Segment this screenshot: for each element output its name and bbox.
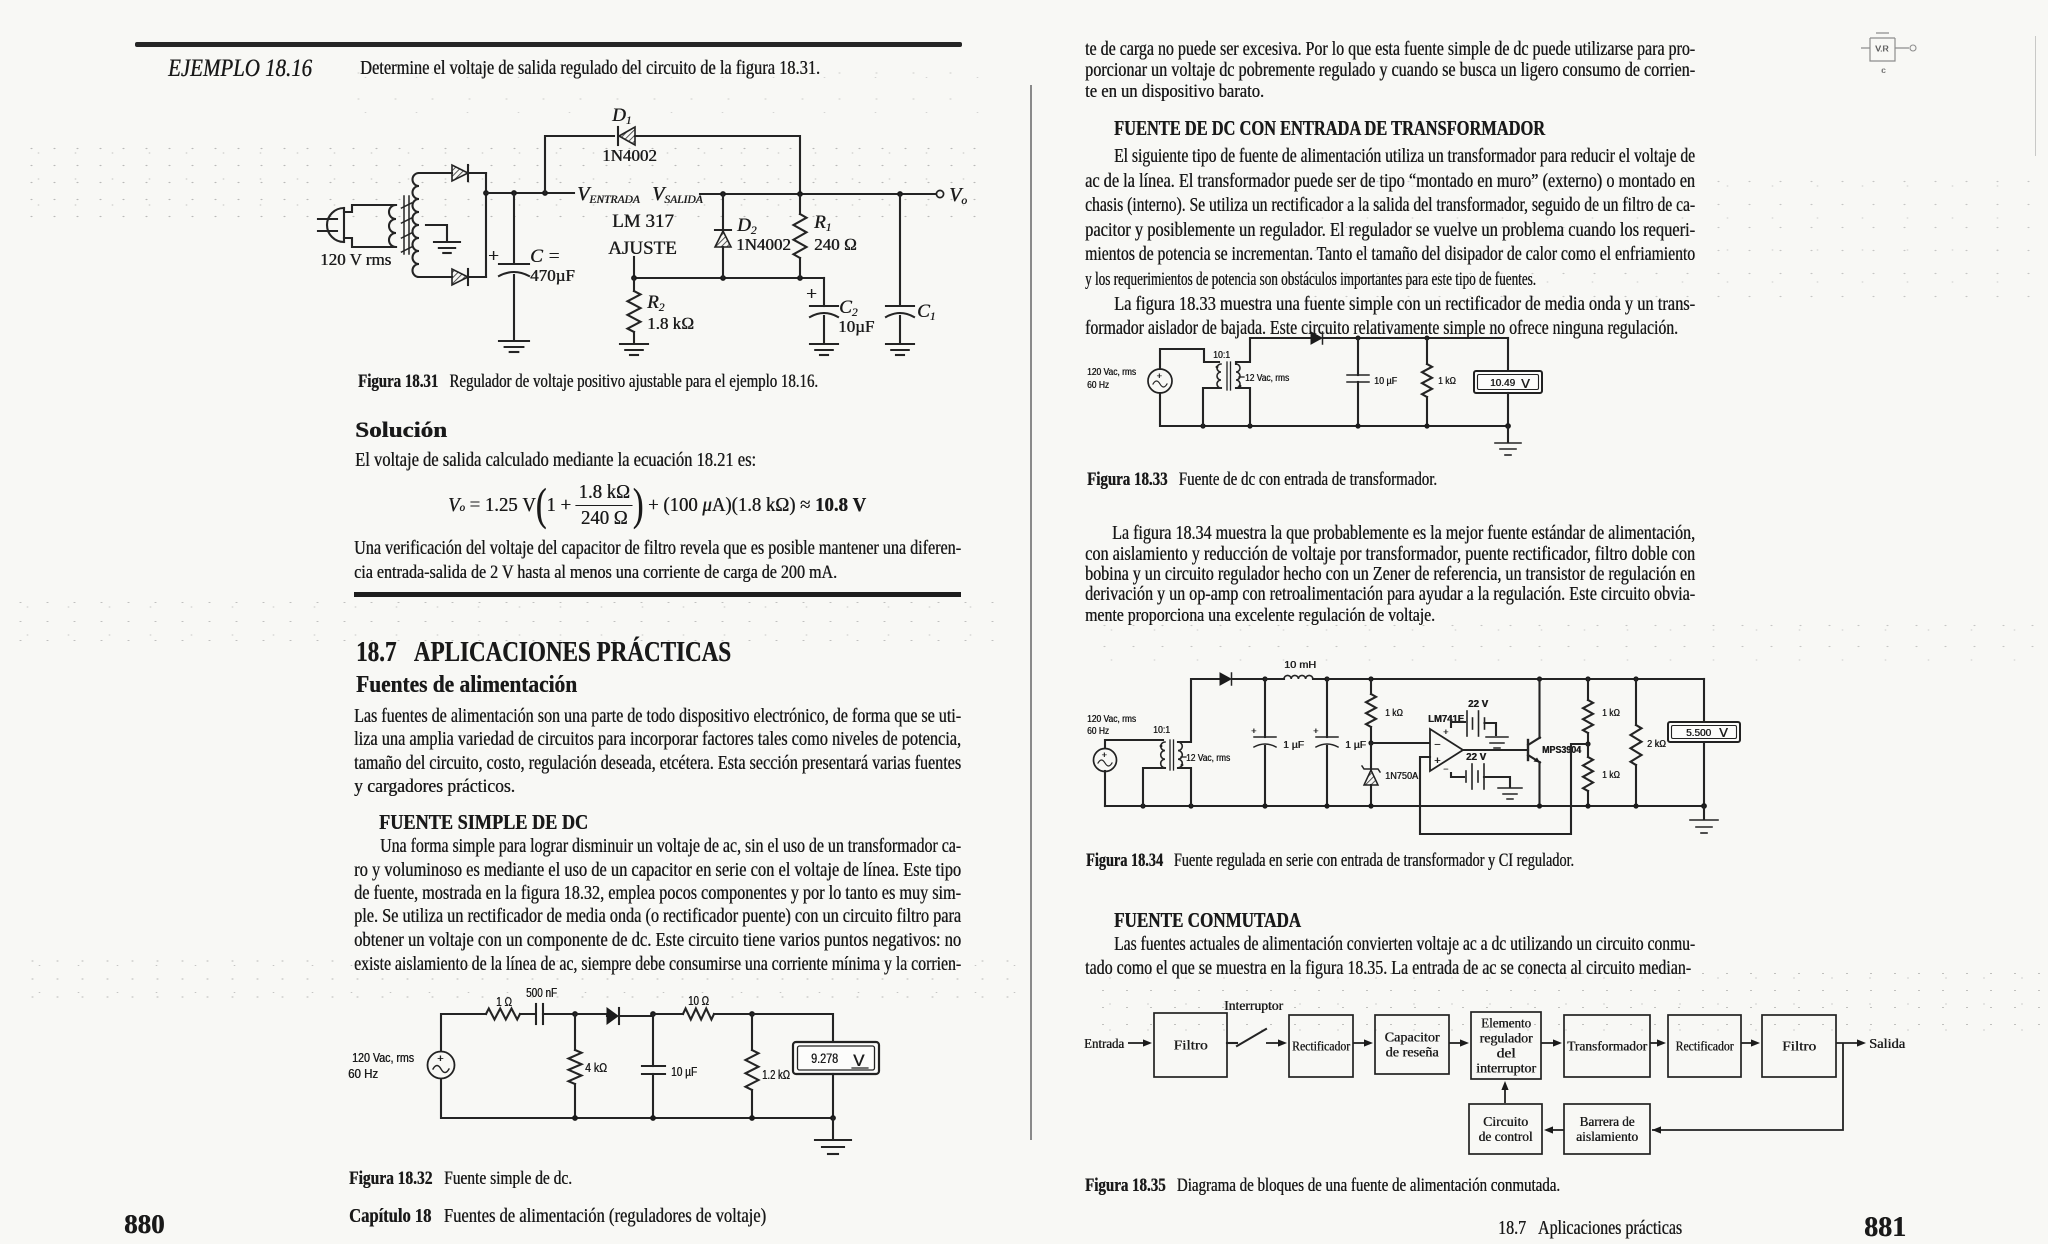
wire source to R 1ohm [441, 1014, 486, 1051]
junction [1505, 423, 1511, 429]
junction [650, 1011, 656, 1017]
junction [1200, 423, 1205, 428]
svg-text:Interruptor: Interruptor [1224, 998, 1284, 1013]
svg-text:V: V [1719, 725, 1728, 740]
svg-text:1N4002: 1N4002 [602, 146, 657, 165]
svg-text:1.8 kΩ: 1.8 kΩ [647, 314, 694, 333]
svg-text:10 mH: 10 mH [1284, 660, 1316, 671]
ground below C1 [886, 344, 914, 355]
junction [720, 191, 726, 197]
svg-text:R2: R2 [646, 292, 665, 314]
svg-text:C1: C1 [917, 301, 935, 323]
svg-text:1 µF: 1 µF [1345, 740, 1366, 751]
svg-text:+: + [806, 284, 817, 305]
arrow Barrera to Circuito de control [1553, 1129, 1564, 1131]
arrow switch to Rectificador [1266, 1042, 1278, 1044]
svg-text:Barrera de: Barrera de [1580, 1114, 1635, 1129]
svg-text:VSALIDA: VSALIDA [652, 183, 704, 206]
svg-text:Rectificador: Rectificador [1676, 1039, 1734, 1054]
wire bridge output [485, 173, 487, 277]
arrow Filtro to Salida [1836, 1042, 1857, 1044]
block: Circuito de control [1469, 1104, 1542, 1154]
wire secondary top to diode fig18.34 [1178, 679, 1220, 742]
arrow Circuito de control up to Elemento [1504, 1090, 1506, 1103]
transformer secondary fig18.33 (12 Vac) [1236, 364, 1240, 388]
wire bottom rail [441, 1079, 833, 1118]
svg-text:22 V: 22 V [1466, 752, 1486, 763]
feedback wire divider to op-amp + input [1420, 744, 1588, 834]
svg-text:240 Ω: 240 Ω [814, 235, 857, 254]
junction [1356, 336, 1361, 341]
svg-text:Salida: Salida [1869, 1036, 1905, 1051]
svg-text:120 Vac, rms: 120 Vac, rms [1087, 714, 1136, 725]
wire emitter to bottom rail [1538, 762, 1540, 806]
svg-text:de control: de control [1479, 1129, 1533, 1144]
svg-text:120 Vac, rms: 120 Vac, rms [352, 1051, 414, 1065]
junction [1247, 423, 1252, 428]
resistor 1 kohm fig18.33 [1426, 338, 1428, 364]
block: Transformador [1564, 1015, 1650, 1077]
svg-text:LM 317: LM 317 [612, 211, 674, 232]
transformer 10:1 primary fig18.33 [1217, 364, 1221, 388]
junction [1701, 803, 1707, 809]
svg-text:1N750A: 1N750A [1385, 771, 1418, 782]
svg-text:del: del [1497, 1046, 1516, 1061]
block: Rectificador (2nd) [1668, 1015, 1741, 1077]
svg-text:+: + [437, 1053, 443, 1065]
ground below R2 [620, 344, 648, 355]
junction [797, 191, 803, 197]
resistor 1 ohm [486, 1009, 520, 1020]
wire source top fig18.34 [1105, 740, 1163, 748]
ac source VS 120 Vac [428, 1052, 455, 1079]
svg-text:1.2 kΩ: 1.2 kΩ [762, 1068, 790, 1082]
arrow to Transformador [1541, 1042, 1553, 1044]
voltmeter 9.278 V [793, 1042, 879, 1074]
transformer core fig18.33 [1227, 362, 1231, 390]
svg-text:−: − [1434, 739, 1440, 751]
svg-text:Vo: Vo [949, 184, 967, 207]
ground below battery V- [1498, 788, 1522, 799]
wire bottom rail fig18.34 [1104, 771, 1106, 806]
arrow to Elemento regulador [1449, 1042, 1460, 1044]
svg-text:120 V rms: 120 V rms [320, 250, 391, 269]
block: Filtro (input) [1154, 1013, 1227, 1077]
arrow to Capacitor de resena [1353, 1042, 1364, 1044]
resistor 4 kohm [574, 1014, 576, 1050]
ground below battery V+ [1486, 737, 1508, 748]
svg-text:de reseña: de reseña [1386, 1045, 1439, 1060]
svg-text:1 µF: 1 µF [1283, 740, 1304, 751]
arrow Entrada to Filtro [1128, 1042, 1143, 1044]
junction [572, 1011, 578, 1017]
wire to voltmeter branch [752, 1014, 833, 1042]
wire input rail to LM317 [486, 192, 574, 194]
inductor 10 mH [1265, 678, 1284, 680]
svg-text:AJUSTE: AJUSTE [608, 238, 677, 259]
svg-text:+: + [488, 246, 499, 267]
wire plug to transformer primary [344, 205, 396, 212]
battery V+ 22V [1451, 722, 1465, 727]
svg-text:Filtro: Filtro [1174, 1038, 1208, 1053]
svg-text:regulador: regulador [1480, 1031, 1534, 1046]
switch symbol [1227, 1029, 1266, 1046]
junction [1324, 676, 1329, 681]
feedback wire from output down to Barrera [1652, 1043, 1843, 1130]
svg-text:Rectificador: Rectificador [1292, 1039, 1350, 1054]
resistor R1 240 ohm [799, 194, 801, 214]
diode fig18.34 [1220, 673, 1232, 685]
svg-text:+: + [1313, 726, 1318, 736]
svg-text:C =: C = [530, 246, 560, 267]
junction [1188, 803, 1193, 808]
ground fig18.33 [1507, 426, 1509, 442]
junction [749, 1115, 755, 1121]
capacitor 1uF (first) [1264, 679, 1266, 737]
wire secondary bottom fig18.34 [1178, 768, 1191, 806]
resistor R2 1.8 kohm [633, 278, 635, 291]
svg-text:12 Vac, rms: 12 Vac, rms [1186, 753, 1230, 764]
svg-text:1 kΩ: 1 kΩ [1438, 376, 1456, 387]
wire secondary top to diode [1236, 338, 1311, 364]
wire adjust rail [633, 257, 635, 278]
capacitor C2 10uF [823, 278, 825, 306]
svg-text:10 µF: 10 µF [1374, 376, 1397, 387]
junction [650, 1115, 656, 1121]
svg-text:D1: D1 [611, 105, 631, 127]
svg-text:22 V: 22 V [1468, 699, 1488, 710]
svg-text:10 µF: 10 µF [671, 1065, 697, 1079]
junction [1368, 676, 1373, 681]
junction [1585, 676, 1590, 681]
svg-text:2 kΩ: 2 kΩ [1647, 739, 1666, 750]
center tap wire [426, 225, 447, 240]
op-amp U1 LM741E [1430, 729, 1463, 771]
junction [1355, 423, 1360, 428]
diode fig18.33 [1311, 332, 1323, 344]
svg-text:500 nF: 500 nF [526, 986, 557, 1000]
resistor 1.2 kohm [751, 1014, 753, 1050]
svg-text:1N4002: 1N4002 [736, 235, 791, 254]
ground below C2 [810, 344, 838, 355]
svg-text:Transformador: Transformador [1567, 1039, 1647, 1054]
svg-text:Filtro: Filtro [1782, 1039, 1816, 1054]
svg-text:1 kΩ: 1 kΩ [1602, 770, 1620, 781]
output terminal Vo [936, 190, 943, 197]
junction [897, 191, 903, 197]
svg-text:V: V [1521, 376, 1530, 391]
svg-text:1 kΩ: 1 kΩ [1385, 708, 1403, 719]
junction [1140, 803, 1145, 808]
wire node to op-amp inverting input [1371, 742, 1429, 744]
capacitor C1 [899, 194, 901, 306]
junction [1537, 803, 1542, 808]
junction [1633, 676, 1638, 681]
junction [1585, 741, 1590, 746]
resistor 1 kohm (zener feed) [1370, 679, 1372, 694]
resistor divider 1 kohm (bottom) [1587, 744, 1589, 757]
diode D (half-wave) [607, 1008, 619, 1024]
junction [631, 275, 637, 281]
ground fig18.34 [1703, 806, 1705, 819]
block: Barrera de aislamiento [1564, 1104, 1650, 1154]
svg-text:10 Ω: 10 Ω [688, 994, 709, 1008]
wire to voltmeter fig18.33 [1507, 338, 1509, 371]
wire node to diode [575, 1014, 607, 1016]
zener diode 1N750A [1370, 743, 1372, 769]
junction [1262, 676, 1267, 681]
svg-text:60 Hz: 60 Hz [1087, 380, 1109, 391]
capacitor 500 nF [536, 1004, 543, 1024]
wire voltmeter to bottom rail [832, 1074, 834, 1118]
transformer T1 secondary winding [413, 173, 420, 277]
arrow to Rectificador 2 [1650, 1042, 1657, 1044]
svg-text:10µF: 10µF [838, 317, 874, 336]
svg-text:10.49: 10.49 [1490, 378, 1515, 389]
svg-text:Elemento: Elemento [1481, 1016, 1531, 1031]
transformer T1 core [402, 196, 412, 254]
junction [572, 1115, 578, 1121]
svg-text:MPS3904: MPS3904 [1542, 745, 1581, 756]
wire primary bottom fig18.34 [1143, 768, 1165, 806]
capacitor 10uF fig18.33 [1357, 338, 1359, 375]
resistor divider 1 kohm (top) [1587, 679, 1589, 700]
wire output rail [700, 193, 936, 195]
svg-text:D2: D2 [736, 215, 757, 237]
voltmeter 10.49 V fig18.33 [1474, 371, 1542, 393]
junction [1324, 803, 1329, 808]
wire top rail fig18.34 [1327, 678, 1704, 680]
capacitor C 470uF [513, 193, 515, 264]
diode D1 1N4002 [545, 136, 614, 193]
transformer core fig18.34 [1170, 740, 1174, 770]
svg-text:60 Hz: 60 Hz [1087, 726, 1109, 737]
svg-text:4 kΩ: 4 kΩ [585, 1061, 607, 1075]
rectifier diode bottom (bridge) [419, 276, 452, 278]
capacitor 10 uF [652, 1014, 654, 1066]
junction [830, 1115, 836, 1121]
junction [1425, 336, 1430, 341]
transistor Q1 MPS3904 [1528, 738, 1540, 763]
ac source 120 Vac fig18.33 [1148, 369, 1172, 393]
block: Capacitor de resena [1375, 1015, 1449, 1074]
wire primary bottom [1203, 388, 1221, 426]
junction [1424, 423, 1429, 428]
svg-text:12 Vac, rms: 12 Vac, rms [1245, 373, 1289, 384]
wire secondary bottom [1236, 388, 1250, 426]
svg-text:1 Ω: 1 Ω [496, 995, 512, 1009]
wire collector to top rail [1538, 679, 1540, 738]
junction [1537, 676, 1542, 681]
svg-text:+: + [1434, 755, 1440, 767]
svg-text:470µF: 470µF [530, 266, 575, 285]
svg-text:10:1: 10:1 [1153, 725, 1170, 736]
svg-text:5.500: 5.500 [1686, 728, 1711, 739]
junction [483, 190, 489, 196]
svg-text:−: − [1443, 764, 1448, 774]
svg-text:+: + [1443, 727, 1448, 737]
ac plug P1 (120 V rms) [318, 208, 344, 242]
junction [511, 190, 517, 196]
resistor 10 ohm [653, 1013, 683, 1015]
rectifier diode top (bridge) [419, 172, 452, 174]
junction [720, 275, 726, 281]
svg-text:interruptor: interruptor [1476, 1061, 1537, 1076]
junction [1633, 803, 1638, 808]
svg-text:60 Hz: 60 Hz [348, 1067, 378, 1081]
svg-text:Entrada: Entrada [1084, 1036, 1124, 1051]
block: Elemento regulador del interruptor [1471, 1012, 1541, 1079]
svg-text:VENTRADA: VENTRADA [577, 183, 641, 206]
arrow to Filtro 2 [1741, 1042, 1751, 1044]
junction [1368, 803, 1373, 808]
svg-text:9.278: 9.278 [811, 1051, 838, 1066]
junction [542, 190, 548, 196]
svg-text:1 kΩ: 1 kΩ [1602, 708, 1620, 719]
svg-text:V: V [853, 1051, 865, 1070]
transformer T1 primary winding [389, 205, 396, 247]
arrow into Barrera de aislamiento [1660, 1129, 1661, 1131]
ground fig18.32 [832, 1118, 834, 1139]
block: Rectificador (1st) [1289, 1015, 1353, 1077]
wire top rail fig18.33 [1324, 337, 1508, 339]
ac source 120 Vac fig18.34 [1094, 749, 1117, 772]
resistor 2 kohm [1635, 679, 1637, 725]
voltmeter 5.500 V fig18.34 [1703, 679, 1705, 721]
svg-text:LM741E: LM741E [1428, 714, 1464, 725]
battery V- 22V [1451, 773, 1464, 777]
block: Filtro (output) [1762, 1015, 1836, 1077]
wire source to primary [1160, 349, 1219, 369]
svg-text:R1: R1 [813, 212, 831, 234]
svg-text:10:1: 10:1 [1213, 350, 1230, 361]
ground below C [499, 341, 529, 352]
junction [1368, 740, 1373, 745]
junction [797, 275, 803, 281]
svg-text:C2: C2 [839, 297, 858, 319]
svg-text:Capacitor: Capacitor [1385, 1030, 1441, 1045]
transformer 10:1 primary fig18.34 [1161, 742, 1165, 768]
capacitor 1uF (second) [1326, 679, 1328, 737]
svg-text:Circuito: Circuito [1483, 1114, 1528, 1129]
svg-text:+: + [1251, 726, 1256, 736]
svg-text:120 Vac, rms: 120 Vac, rms [1087, 367, 1136, 378]
junction [749, 1011, 755, 1017]
svg-text:+: + [1157, 371, 1162, 381]
wire bottom rail fig18.33 [1160, 393, 1508, 426]
center-tap ground [434, 242, 460, 253]
junction [1585, 803, 1590, 808]
transformer secondary fig18.34 (12 Vac) [1178, 742, 1182, 768]
wire op-amp output to transistor base [1463, 749, 1528, 751]
diode D2 1N4002 [722, 194, 724, 231]
svg-text:+: + [1102, 750, 1107, 760]
junction [1262, 803, 1267, 808]
svg-text:aislamiento: aislamiento [1576, 1129, 1638, 1144]
